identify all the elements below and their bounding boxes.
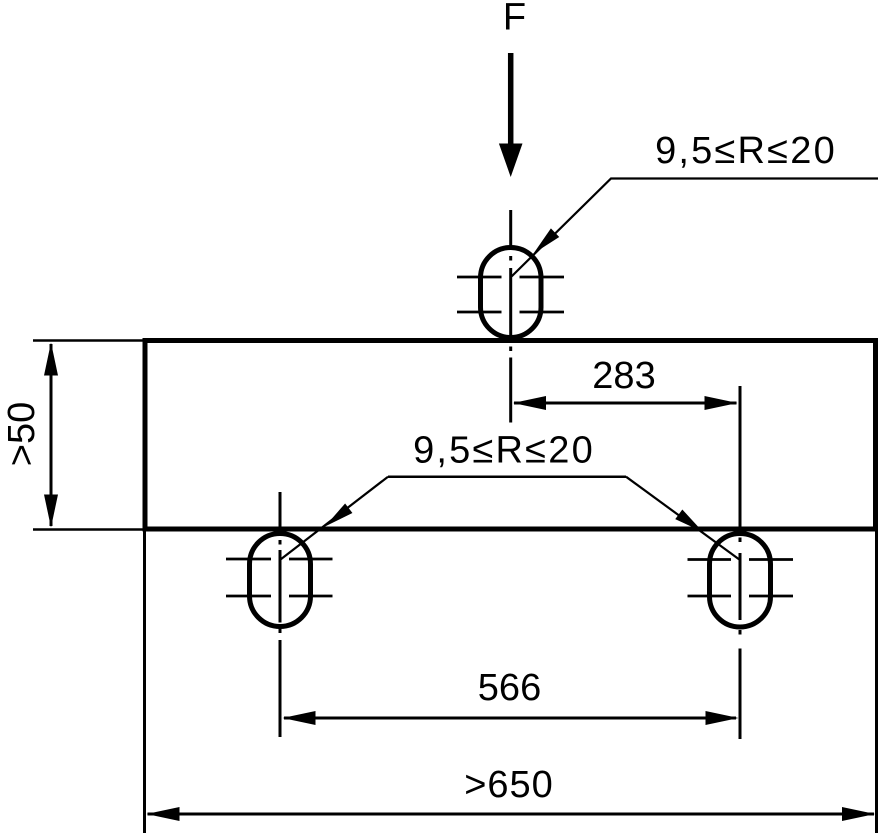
svg-text:283: 283: [592, 355, 655, 397]
svg-text:9,5≤R≤20: 9,5≤R≤20: [413, 430, 595, 472]
svg-text:F: F: [503, 0, 526, 39]
svg-text:566: 566: [478, 667, 541, 709]
svg-text:>50: >50: [1, 402, 43, 466]
svg-text:>650: >650: [464, 764, 554, 806]
svg-text:9,5≤R≤20: 9,5≤R≤20: [655, 130, 837, 172]
